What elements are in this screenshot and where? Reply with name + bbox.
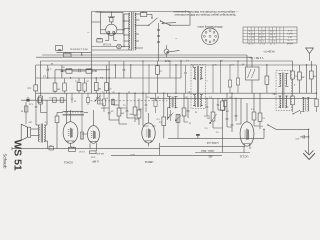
extra cap x185 upper xyxy=(184,65,186,93)
svg-text:4: 4 xyxy=(252,29,253,31)
tone switch diagonal 2 xyxy=(292,110,300,114)
svg-text:Ig2mA: Ig2mA xyxy=(286,42,292,45)
rail switch box xyxy=(49,144,54,150)
svg-text:1kΩ: 1kΩ xyxy=(27,87,31,89)
svg-text:0,3: 0,3 xyxy=(273,36,276,38)
upper left labels xyxy=(48,66,65,69)
V4 leads xyxy=(241,98,255,152)
primary taps xyxy=(123,14,130,47)
resistor above AZ11 xyxy=(110,12,113,25)
speaker wires xyxy=(31,129,40,136)
speaker ground drop xyxy=(24,140,25,148)
svg-text:60: 60 xyxy=(252,36,254,38)
coil tap resistor xyxy=(55,113,59,149)
ganging dashed link xyxy=(98,100,168,102)
vertical x40 with resistor xyxy=(39,61,47,113)
bus E y93.2 xyxy=(36,92,317,94)
title text Schaub xyxy=(3,154,8,169)
labels above speaker xyxy=(20,103,33,112)
cluster res mid2 xyxy=(117,93,124,124)
cluster caps mid1 xyxy=(108,93,113,120)
label Wdt xyxy=(207,141,219,144)
svg-text:25: 25 xyxy=(259,36,261,38)
lower row cap x100 xyxy=(99,93,101,104)
title text WS 51 xyxy=(12,140,23,171)
tone switch diagonal xyxy=(267,124,284,129)
pot2 xyxy=(175,114,181,138)
tube V1 UCH11 xyxy=(63,122,78,144)
svg-text:2M: 2M xyxy=(301,76,304,78)
svg-text:75: 75 xyxy=(270,42,272,44)
svg-text:4,5V: 4,5V xyxy=(90,155,95,157)
mains switch contact 2 xyxy=(160,20,178,26)
svg-text:V4,5B=7V~: V4,5B=7V~ xyxy=(262,50,274,52)
rail R3 xyxy=(195,152,250,154)
label Wkst xyxy=(201,149,215,152)
svg-text:1M: 1M xyxy=(226,110,229,112)
label V2 xyxy=(92,160,99,164)
label 450 xyxy=(208,155,213,157)
cluster res mid5 xyxy=(137,98,141,125)
label AZ11 xyxy=(108,15,115,19)
upper parts x217-231 xyxy=(217,98,227,110)
resistor x163.8 xyxy=(158,93,166,138)
capacitor drop x47.8 xyxy=(47,65,50,79)
bus C y61 xyxy=(41,60,293,62)
svg-text:6: 6 xyxy=(263,32,264,34)
capacitor drop x123.9 xyxy=(123,61,126,78)
resistor 2x0,1 xyxy=(61,67,76,73)
box left row 2 xyxy=(48,96,57,103)
extra vertical x220 upper xyxy=(220,60,221,93)
resistor drop x64.5 xyxy=(63,78,67,93)
rail left ground xyxy=(12,147,160,150)
cluster label 5 xyxy=(149,97,153,99)
output transformer leads xyxy=(36,100,48,148)
extra res x230 upper xyxy=(228,64,231,93)
bus A y55 xyxy=(42,54,247,56)
vertical x115 xyxy=(115,64,116,78)
svg-text:(+Wdt)–Udt: (+Wdt)–Udt xyxy=(207,141,219,144)
cluster label 4 xyxy=(139,108,142,110)
electrolytic cap Wdt xyxy=(196,134,200,138)
input coil horizontal xyxy=(57,111,88,115)
mid junctions xyxy=(108,93,176,94)
osc coil xyxy=(168,93,178,120)
mains transformer primary winding xyxy=(129,13,130,50)
vertical right x306 xyxy=(306,64,307,93)
svg-text:Schaub: Schaub xyxy=(3,154,8,169)
heater wires AZ11 xyxy=(105,33,117,40)
secondary taps xyxy=(135,14,143,48)
rectifier inner box xyxy=(101,13,124,34)
svg-text:2x0,1: 2x0,1 xyxy=(66,67,72,69)
svg-text:8: 8 xyxy=(270,36,271,38)
junction dots row xyxy=(70,77,110,78)
vertical right x316 xyxy=(316,65,317,94)
res x254 xyxy=(252,93,256,126)
IF transformer 2 xyxy=(276,71,292,111)
rail y69.8 xyxy=(55,69,110,71)
wire switch right xyxy=(178,12,190,26)
cluster link y119 xyxy=(135,118,139,120)
svg-text:95: 95 xyxy=(259,39,261,41)
lower row labels xyxy=(73,99,93,102)
voltage table xyxy=(243,27,297,45)
lamp resistor box xyxy=(97,37,103,42)
cap x232 xyxy=(231,93,234,133)
svg-text:V 4,5B = 7V~: V 4,5B = 7V~ xyxy=(248,56,263,59)
svg-text:U.MF: U.MF xyxy=(92,160,99,164)
note line 2 xyxy=(174,13,235,17)
svg-text:0,1A: 0,1A xyxy=(64,51,69,54)
label V3 xyxy=(144,160,153,164)
scale pointer arrow top xyxy=(162,22,177,24)
wire power block bottom xyxy=(92,49,132,51)
mains transformer secondary winding xyxy=(135,13,136,50)
V1 leads xyxy=(67,93,76,155)
cluster cap xB xyxy=(145,93,147,112)
res x222 xyxy=(221,98,225,152)
svg-text:40Ω: 40Ω xyxy=(97,37,101,39)
resistor right x311 xyxy=(309,61,315,93)
svg-text:4Ω: 4Ω xyxy=(49,144,52,146)
vertical x181 xyxy=(180,60,181,78)
svg-text:1,2: 1,2 xyxy=(262,36,265,38)
rail mid low xyxy=(111,154,222,156)
svg-text:w+G: w+G xyxy=(130,153,135,155)
coupling cap x236 xyxy=(235,98,238,121)
resistor x316 lower xyxy=(315,93,318,112)
cluster label 6 xyxy=(156,118,160,120)
cluster label 3 xyxy=(128,113,132,115)
label row y47.5 xyxy=(70,48,88,51)
svg-text:4: 4 xyxy=(263,39,264,41)
bus F y98.4 xyxy=(150,97,317,99)
rectifier tube AZ11 xyxy=(101,24,125,35)
svg-text:25: 25 xyxy=(270,29,272,31)
svg-text:40Ω: 40Ω xyxy=(70,145,74,147)
V2 leads xyxy=(90,110,104,157)
resistor drop x79 xyxy=(77,78,81,93)
cap above transformer xyxy=(35,100,37,112)
svg-text:0,1 50: 0,1 50 xyxy=(78,150,85,152)
tube V3 UAF42 xyxy=(142,123,155,143)
resistor 1k drop xyxy=(34,85,38,100)
cluster res xC xyxy=(154,93,157,113)
svg-text:0,3: 0,3 xyxy=(262,42,265,44)
rail R2 xyxy=(160,146,245,148)
selenium rectifier box xyxy=(241,55,259,93)
label 470 ohm xyxy=(95,10,101,13)
electrolytic blob left xyxy=(26,96,30,102)
fuse box on bus A xyxy=(64,51,72,57)
bus B y57.2 xyxy=(36,56,252,58)
IF transformer 1 xyxy=(191,65,206,109)
svg-text:95: 95 xyxy=(270,32,272,34)
svg-text:2: 2 xyxy=(260,29,261,31)
svg-text:0,3: 0,3 xyxy=(252,32,255,34)
svg-text:Ug2 V: Ug2 V xyxy=(287,32,293,34)
extra vert x143 upper xyxy=(142,60,143,93)
bus D y65 xyxy=(36,64,317,66)
screen vertical x82 xyxy=(80,93,87,140)
svg-text:25: 25 xyxy=(248,42,250,44)
fuse box xyxy=(141,11,147,17)
output transformer xyxy=(38,124,45,143)
rail y78 xyxy=(36,77,181,79)
svg-text:Uk V: Uk V xyxy=(287,35,292,37)
cluster label 1 xyxy=(105,97,108,99)
label w+G xyxy=(130,153,135,155)
wire right corner xyxy=(276,129,309,154)
note line 1 xyxy=(173,10,238,14)
capacitor 470 fixed xyxy=(295,135,309,139)
label 0,05 on bus xyxy=(164,59,169,61)
power block left edge extension xyxy=(91,52,93,93)
dial lamp xyxy=(92,44,125,49)
svg-text:2: 2 xyxy=(249,36,250,38)
mains input tilde xyxy=(87,30,90,35)
extra vert x170 upper xyxy=(169,60,170,78)
resistor drop x106.5 xyxy=(105,65,112,93)
resistor drop x96.2 xyxy=(94,78,101,93)
res x113 xyxy=(111,98,114,105)
left bus D corner xyxy=(35,65,37,85)
mains transformer core xyxy=(132,12,134,51)
wire mains to rectifier box xyxy=(92,21,101,23)
extra label IFT2 xyxy=(272,83,295,95)
label V1 xyxy=(63,161,73,165)
box left row 3 xyxy=(60,98,64,103)
svg-text:6: 6 xyxy=(252,39,253,41)
capacitor drop x61.9 xyxy=(61,65,64,78)
cluster link y108b xyxy=(118,107,127,108)
svg-text:0,05: 0,05 xyxy=(164,59,169,61)
vertical x130.8 xyxy=(130,64,131,78)
svg-text:75: 75 xyxy=(259,32,261,34)
svg-text:Ua V: Ua V xyxy=(287,29,292,31)
left label 1k xyxy=(27,87,31,89)
extra res x238 upper xyxy=(236,60,239,93)
svg-text:5000: 5000 xyxy=(86,67,92,69)
left row end xyxy=(21,99,24,101)
resistor drop x55 xyxy=(53,70,60,93)
svg-text:2M: 2M xyxy=(139,108,142,110)
svg-text:60: 60 xyxy=(263,29,265,31)
resistor x292 lower xyxy=(291,93,295,112)
label V4 xyxy=(239,155,248,159)
tilde symbol mid xyxy=(175,36,178,41)
power block frame xyxy=(92,12,191,53)
voltage selector capacitor stack xyxy=(157,23,160,61)
corner x35.8 xyxy=(35,78,37,80)
svg-text:2M: 2M xyxy=(98,87,101,89)
svg-text:6: 6 xyxy=(274,42,275,44)
svg-text:2: 2 xyxy=(270,39,271,41)
wire above speaker xyxy=(24,100,28,124)
mains switch contact 1 xyxy=(140,17,158,26)
rail R1 xyxy=(168,129,265,139)
label under T1 row xyxy=(78,150,85,152)
fuse lamp circle xyxy=(164,45,169,57)
left row wire xyxy=(24,99,67,101)
speckle labels band xyxy=(101,91,263,133)
volume potentiometer xyxy=(206,98,217,128)
box left row 1 xyxy=(38,98,42,103)
cluster link wires xyxy=(101,105,135,124)
V3 leads xyxy=(143,93,159,155)
cluster res xA xyxy=(102,93,105,112)
vertical x176 xyxy=(175,64,176,93)
svg-text:0M 4,1 25B 60mA: 0M 4,1 25B 60mA xyxy=(70,48,88,51)
svg-text:UBF11: UBF11 xyxy=(144,160,153,164)
wire fuse to switch xyxy=(147,14,152,18)
link wires right-mid xyxy=(184,116,260,128)
lower row cap x72 xyxy=(71,93,73,103)
resistor drop x84.7 xyxy=(83,78,87,93)
cluster caps mid3 xyxy=(126,93,129,118)
svg-text:AK (b2): AK (b2) xyxy=(96,152,104,155)
svg-text:Ia mA: Ia mA xyxy=(287,39,293,42)
svg-text:WS 51: WS 51 xyxy=(12,140,23,171)
resistor right x292 xyxy=(291,71,298,93)
resistor right x299 xyxy=(298,65,305,93)
variable capacitor 1 xyxy=(95,93,101,104)
tube socket diagram xyxy=(202,28,219,45)
vertical x109 xyxy=(108,61,110,93)
wire y52.3 xyxy=(56,52,91,55)
label V2 right xyxy=(262,50,274,52)
label 4V 0,3A xyxy=(102,43,111,46)
svg-text:60: 60 xyxy=(273,39,275,41)
svg-text:4V 0,3A: 4V 0,3A xyxy=(102,43,111,46)
svg-text:95: 95 xyxy=(248,29,250,31)
loudspeaker xyxy=(21,124,31,140)
label V mains xyxy=(248,56,263,59)
extra label IFT1 xyxy=(187,79,207,93)
socket label xyxy=(197,25,222,29)
svg-text:8: 8 xyxy=(249,32,250,34)
mid resistor x266 xyxy=(265,64,269,93)
cluster link y126 xyxy=(143,125,156,127)
cluster link y103 xyxy=(98,103,105,105)
svg-text:8: 8 xyxy=(260,42,261,44)
svg-text:1,2: 1,2 xyxy=(252,42,255,44)
svg-text:4: 4 xyxy=(274,32,275,34)
svg-text:Spannungen gegen Chassis mit R: Spannungen gegen Chassis mit Röhrenvoltm… xyxy=(174,13,235,17)
capacitor 0,1 row xyxy=(77,67,85,72)
speckle labels left band xyxy=(42,62,103,82)
svg-text:75: 75 xyxy=(248,39,250,41)
tube V2 UBF11 xyxy=(88,126,100,144)
extra small caps right-mid xyxy=(206,98,208,116)
svg-text:0,8A: 0,8A xyxy=(141,11,146,14)
ground symbol xyxy=(303,150,315,159)
lower row box x88 xyxy=(86,93,89,105)
extra vertical x213 upper xyxy=(212,64,213,93)
resistor 5000 xyxy=(84,67,97,73)
extra vert x149 upper xyxy=(148,64,149,93)
speaker labels xyxy=(27,121,47,123)
resistor drop x157.5 xyxy=(156,61,163,93)
detector coil right xyxy=(300,98,309,115)
bus labels mid xyxy=(185,59,234,65)
variable capacitor 2 xyxy=(168,110,174,121)
antenna xyxy=(306,48,314,61)
res x260 xyxy=(258,93,265,129)
svg-text:+Wkst –Wkst: +Wkst –Wkst xyxy=(201,149,215,152)
cluster label 2 xyxy=(122,104,126,106)
cap x227 xyxy=(226,93,229,127)
svg-text:1,2: 1,2 xyxy=(273,29,276,31)
svg-text:UCL11: UCL11 xyxy=(239,155,248,159)
res x184 xyxy=(182,93,186,122)
cap x188 xyxy=(187,98,190,118)
tube V4 UCL11 xyxy=(240,122,254,146)
cluster res mid4 xyxy=(133,93,137,122)
box with blob y48 xyxy=(55,46,62,55)
svg-text:UCH11: UCH11 xyxy=(63,161,73,165)
wire bus C corner right xyxy=(292,61,294,71)
scale pointer arrow mid xyxy=(166,50,180,53)
